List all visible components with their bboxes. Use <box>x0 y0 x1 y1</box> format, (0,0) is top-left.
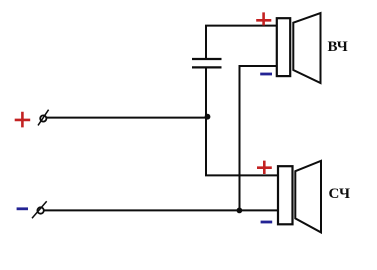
speaker BЧ (tweeter) <box>277 13 321 83</box>
svg-text:СЧ: СЧ <box>329 186 350 202</box>
input terminal - (circle with slash) <box>32 201 47 218</box>
speaker CЧ minus label <box>261 221 273 224</box>
wire: + input to junction <box>47 117 208 119</box>
speaker BЧ minus label <box>260 73 272 76</box>
input minus polarity label <box>17 207 28 210</box>
input plus polarity label <box>15 112 31 128</box>
capacitor C1 <box>192 59 222 67</box>
input terminal + (circle with slash) <box>38 110 49 126</box>
speaker CЧ (midrange) <box>278 161 321 233</box>
node junction on + rail <box>205 114 211 120</box>
svg-text:ВЧ: ВЧ <box>328 39 348 55</box>
speaker CЧ plus label <box>257 161 272 174</box>
wire: speaker BЧ minus down to minus rail <box>240 66 277 210</box>
node junction on minus rail <box>237 208 243 214</box>
wire: top branch, capacitor to speaker BЧ plus <box>206 26 277 59</box>
wire: + rail down and to speaker CЧ plus <box>206 67 278 175</box>
speaker BЧ plus label <box>256 12 271 25</box>
wire: minus rail <box>44 209 278 211</box>
